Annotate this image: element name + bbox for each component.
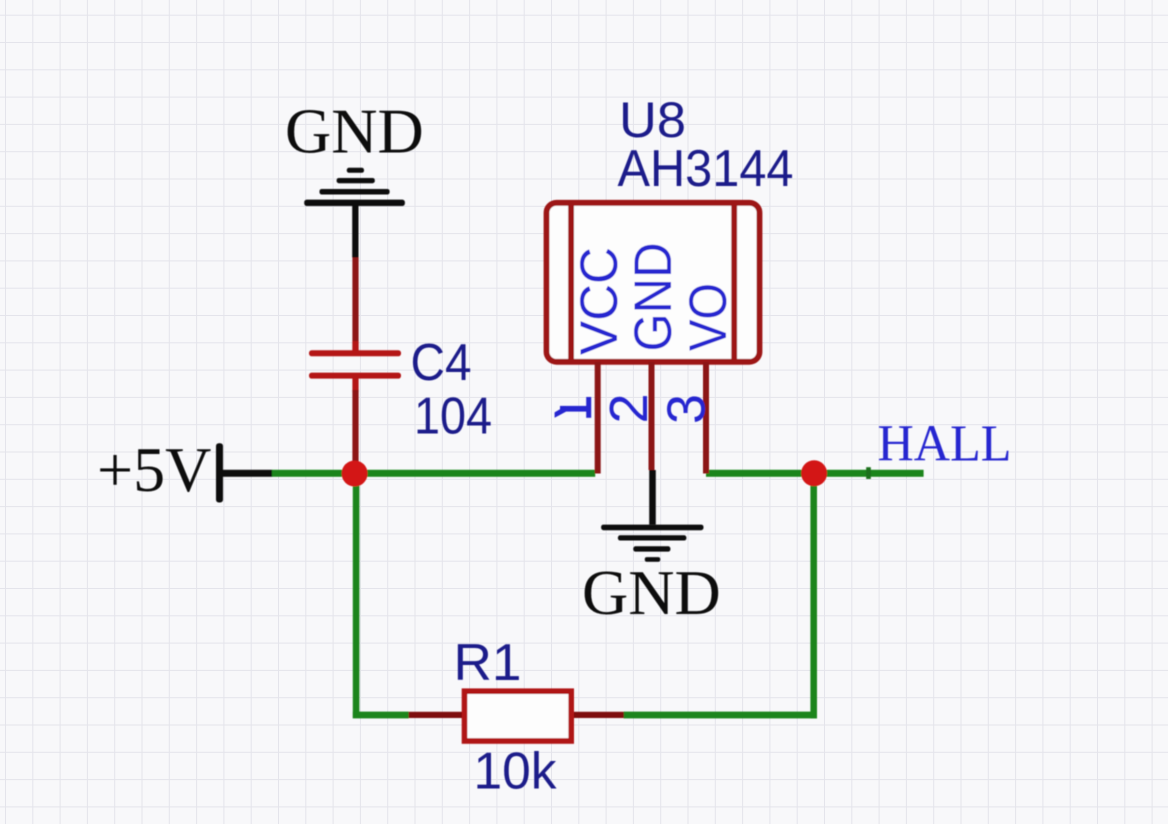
svg-text:C4: C4 xyxy=(411,334,472,392)
svg-text:10k: 10k xyxy=(474,743,558,801)
svg-text:104: 104 xyxy=(414,388,492,446)
svg-text:R1: R1 xyxy=(454,634,522,692)
svg-text:3: 3 xyxy=(657,394,717,424)
svg-text:VCC: VCC xyxy=(570,247,629,355)
svg-text:GND: GND xyxy=(285,96,424,167)
svg-text:AH3144: AH3144 xyxy=(618,140,794,198)
svg-text:HALL: HALL xyxy=(878,416,1012,473)
svg-text:GND: GND xyxy=(582,557,721,628)
svg-text:GND: GND xyxy=(624,243,683,352)
svg-text:VO: VO xyxy=(679,283,738,351)
svg-text:2: 2 xyxy=(599,393,659,423)
svg-text:+5V: +5V xyxy=(97,434,211,505)
